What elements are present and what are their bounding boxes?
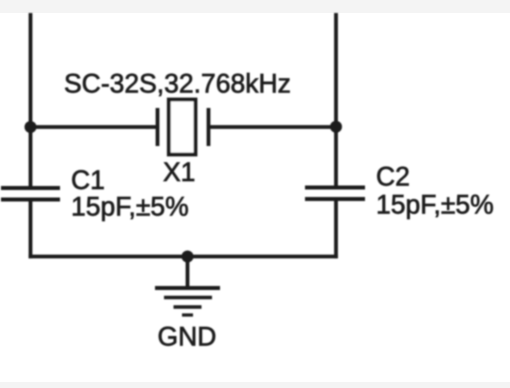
- crystal X1 body rectangle: [169, 100, 196, 155]
- wire right vertical (top rail to C2): [334, 13, 338, 188]
- ground bar 1: [155, 286, 220, 290]
- svg-text:15pF,±5%: 15pF,±5%: [71, 192, 189, 222]
- node B junction dot: [330, 121, 342, 133]
- wire C2 to bottom rail: [334, 199, 338, 258]
- wire C1 to bottom rail: [29, 200, 33, 259]
- ground bar 3: [174, 305, 202, 309]
- capacitor C1 bottom plate: [1, 198, 60, 202]
- svg-text:GND: GND: [158, 322, 217, 352]
- wire bottom rail: [29, 255, 338, 259]
- ground junction dot: [182, 251, 194, 263]
- crystal X1 left electrode plate: [156, 108, 160, 146]
- svg-text:C2: C2: [376, 162, 410, 192]
- svg-text:15pF,±5%: 15pF,±5%: [376, 190, 494, 220]
- wire ground stub: [186, 257, 190, 289]
- svg-text:C1: C1: [71, 165, 105, 195]
- crystal X1 right electrode plate: [207, 108, 211, 146]
- ground bar 2: [164, 296, 212, 300]
- ground bar 4: [182, 313, 193, 316]
- wire crystal right lead to node B: [209, 125, 338, 129]
- svg-text:X1: X1: [163, 157, 195, 187]
- node A junction dot: [25, 121, 37, 133]
- capacitor C1 top plate: [1, 186, 60, 190]
- wire node A to crystal left lead: [29, 125, 158, 129]
- wire left vertical (top rail to C1): [29, 13, 33, 188]
- capacitor C2 top plate: [305, 186, 365, 190]
- capacitor C2 bottom plate: [305, 197, 365, 201]
- svg-text:SC-32S,32.768kHz: SC-32S,32.768kHz: [64, 69, 291, 99]
